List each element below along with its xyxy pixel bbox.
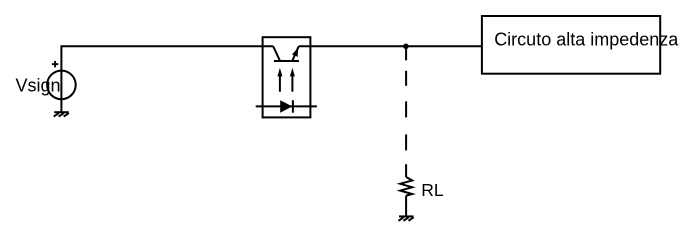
light arrow 2 bbox=[291, 75, 293, 92]
svg-text:Circuto alta impedenza: Circuto alta impedenza bbox=[494, 29, 679, 49]
wire from optocoupler to high impedance box bbox=[299, 45, 482, 47]
dashed wire to RL bbox=[405, 46, 407, 150]
LED wire bbox=[256, 105, 317, 107]
svg-text:Vsign: Vsign bbox=[16, 75, 61, 95]
phototransistor bbox=[273, 46, 299, 61]
LED diode D1 bbox=[280, 100, 292, 113]
high impedance circuit box bbox=[482, 16, 660, 74]
voltage source V1 circle bbox=[47, 71, 76, 100]
wire vertical source lead bbox=[60, 45, 62, 112]
emitter arrowhead bbox=[292, 48, 298, 57]
optocoupler U1 box bbox=[263, 37, 311, 117]
plus polarity mark bbox=[52, 61, 58, 67]
node junction dot bbox=[403, 44, 409, 50]
ground under source bbox=[54, 112, 69, 116]
light arrow 1 bbox=[279, 75, 281, 92]
wire from source top to optocoupler bbox=[61, 45, 273, 47]
ground under RL bbox=[399, 216, 414, 220]
svg-text:RL: RL bbox=[421, 180, 444, 200]
resistor RL bbox=[400, 164, 412, 216]
